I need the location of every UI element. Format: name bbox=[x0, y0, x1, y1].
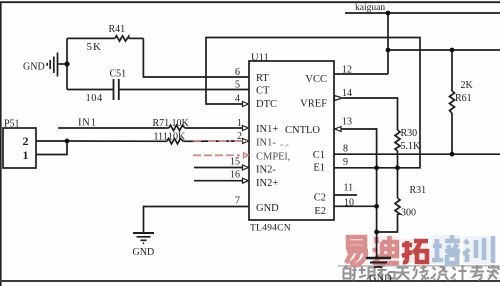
resistor 111 10K bbox=[167, 139, 183, 144]
kaiguan rail bbox=[345, 12, 500, 14]
faint middle watermark dashes bbox=[193, 141, 249, 158]
node kaiguan junction bbox=[386, 11, 391, 16]
svg-text:R30: R30 bbox=[401, 128, 418, 139]
svg-text:8: 8 bbox=[343, 144, 348, 155]
svg-text:15: 15 bbox=[230, 157, 240, 168]
svg-text:CT: CT bbox=[256, 86, 270, 97]
page border bottom bbox=[0, 280, 500, 282]
wire pin8 C1 bbox=[334, 153, 500, 155]
培 bbox=[432, 235, 460, 263]
resistor R61 bbox=[450, 91, 455, 113]
svg-text:IN2+: IN2+ bbox=[256, 178, 278, 189]
svg-text:E1: E1 bbox=[313, 163, 325, 174]
node rail2-R61 junction bbox=[450, 48, 455, 53]
svg-text:11: 11 bbox=[344, 183, 354, 194]
设 bbox=[431, 267, 449, 280]
ground bottom-left bbox=[133, 233, 154, 243]
wire IN1 bbox=[58, 127, 169, 129]
svg-text:C1: C1 bbox=[313, 150, 325, 161]
svg-text:16: 16 bbox=[230, 170, 240, 181]
node P51 junction bbox=[65, 139, 70, 144]
arrow pin16 IN2+ bbox=[243, 178, 249, 183]
svg-text:VREF: VREF bbox=[300, 99, 327, 110]
connector P51 box bbox=[3, 128, 36, 168]
射 bbox=[344, 266, 357, 280]
resistor R31 leads bbox=[397, 168, 399, 198]
watermark gray line bbox=[338, 265, 500, 267]
resistor R31 bbox=[395, 198, 400, 214]
node R31-gnd junction bbox=[374, 230, 379, 235]
arrow pin14 VREF out bbox=[335, 96, 343, 101]
svg-text:2K: 2K bbox=[461, 80, 474, 91]
rail 2 bbox=[388, 49, 500, 51]
IC U11 box bbox=[249, 61, 334, 220]
svg-text:111: 111 bbox=[154, 132, 168, 143]
stray gray marks bbox=[280, 145, 289, 146]
svg-text:IN1-: IN1- bbox=[256, 138, 276, 149]
wire IN2+ bbox=[194, 180, 243, 182]
svg-text:U11: U11 bbox=[251, 53, 269, 64]
svg-text:6: 6 bbox=[235, 67, 240, 78]
svg-text:R41: R41 bbox=[109, 24, 126, 35]
svg-text:IN1: IN1 bbox=[78, 118, 97, 129]
svg-text:E2: E2 bbox=[314, 206, 326, 217]
ground bottom-right bbox=[366, 258, 391, 267]
svg-text:R71: R71 bbox=[153, 118, 170, 129]
svg-text:RT: RT bbox=[256, 73, 269, 84]
node rail2-vcc junction bbox=[386, 48, 391, 53]
wire R41 left vertical bbox=[66, 38, 68, 89]
训 bbox=[463, 236, 493, 263]
ground left (earth, rotated) bbox=[47, 53, 57, 77]
arrow pin2 IN1- bbox=[243, 139, 249, 144]
node C1-R61 junction bbox=[450, 152, 455, 157]
wire kaiguan drop bbox=[387, 13, 389, 74]
svg-text:104: 104 bbox=[86, 93, 104, 104]
svg-text:CMPEl,: CMPEl, bbox=[256, 152, 290, 163]
wire P51 pin2 bbox=[36, 140, 67, 142]
svg-text:5: 5 bbox=[235, 80, 240, 91]
svg-text:IN2-: IN2- bbox=[256, 165, 276, 176]
wire pin14 VREF bbox=[343, 98, 398, 130]
专 bbox=[470, 265, 484, 280]
page border top bbox=[0, 1, 500, 3]
arrow pin1 IN1+ bbox=[243, 126, 249, 131]
svg-text:IN1+: IN1+ bbox=[256, 124, 278, 135]
svg-text:2: 2 bbox=[237, 131, 242, 142]
svg-text:5.1K: 5.1K bbox=[401, 141, 422, 152]
wire R41 to pin6 RT bbox=[143, 38, 249, 77]
svg-text:C2: C2 bbox=[314, 193, 326, 204]
wire gnd left stub bbox=[58, 63, 68, 65]
node gnd-left junction bbox=[64, 61, 69, 66]
svg-text:7: 7 bbox=[235, 196, 240, 207]
resistor R30 bbox=[395, 130, 400, 151]
wire right gnd drop bbox=[376, 168, 378, 258]
labels bbox=[250, 53, 327, 234]
svg-text:DTC: DTC bbox=[256, 99, 277, 110]
capacitor C51 plates bbox=[113, 79, 115, 100]
watermark gray text 射频和天线设计专家 (shapes) bbox=[344, 265, 499, 280]
arrow pin4 DTC bbox=[243, 102, 249, 107]
svg-text:1: 1 bbox=[23, 148, 29, 162]
wire pin10 E2 bbox=[334, 205, 377, 207]
resistor R71 bbox=[169, 125, 185, 130]
svg-text:2: 2 bbox=[23, 134, 29, 148]
svg-text:1: 1 bbox=[237, 118, 242, 129]
svg-text:kaiguan: kaiguan bbox=[355, 3, 385, 13]
wire pin9 E1 feedback to DTC bbox=[206, 38, 420, 168]
svg-text:GND: GND bbox=[23, 62, 45, 73]
svg-text:R31: R31 bbox=[410, 185, 427, 196]
resistor R61 leads bbox=[451, 50, 453, 91]
svg-text:P51: P51 bbox=[4, 119, 20, 130]
svg-text:4: 4 bbox=[235, 94, 240, 105]
node E2 junction bbox=[374, 204, 379, 209]
wire P51 pin1 bbox=[36, 141, 67, 155]
wire pin13 CNTLO bbox=[341, 129, 377, 168]
svg-text:10K: 10K bbox=[172, 118, 190, 129]
svg-text:12: 12 bbox=[342, 65, 352, 76]
resistor R41 leads bbox=[67, 37, 115, 39]
svg-text:GND: GND bbox=[369, 274, 392, 285]
迪 bbox=[373, 236, 399, 263]
svg-text:GND: GND bbox=[256, 203, 279, 214]
svg-text:C51: C51 bbox=[110, 69, 127, 80]
svg-text:13: 13 bbox=[342, 117, 352, 128]
wire pin7 GND bbox=[144, 207, 250, 234]
page border left bbox=[0, 2, 2, 286]
svg-text:9: 9 bbox=[343, 157, 348, 168]
和 bbox=[378, 266, 395, 280]
node E1-R30 junction bbox=[395, 165, 400, 170]
svg-text:5K: 5K bbox=[87, 41, 102, 53]
node E1-CNTLO junction bbox=[374, 165, 379, 170]
resistor R41 bbox=[115, 36, 129, 41]
wire pin12 VCC bbox=[334, 73, 388, 75]
svg-text:VCC: VCC bbox=[305, 74, 327, 85]
易 bbox=[346, 237, 368, 265]
计 bbox=[451, 265, 467, 280]
svg-text:CNTLO: CNTLO bbox=[285, 125, 320, 136]
频 bbox=[359, 267, 376, 280]
线 bbox=[413, 265, 430, 280]
arrow pin15 IN2- bbox=[243, 165, 249, 170]
pin arrows bbox=[243, 96, 343, 184]
拓 bbox=[402, 241, 428, 262]
天 bbox=[396, 268, 410, 280]
capacitor C51 leads bbox=[67, 89, 114, 91]
svg-text:R61: R61 bbox=[455, 93, 472, 104]
svg-text:300: 300 bbox=[401, 208, 416, 219]
svg-text:TL494CN: TL494CN bbox=[250, 223, 291, 234]
watermark red text 易迪拓培训 (drawn as shapes) bbox=[346, 235, 494, 265]
svg-text:14: 14 bbox=[342, 88, 352, 99]
wire IN1- row bbox=[67, 140, 167, 142]
wire IN2- bbox=[194, 167, 243, 169]
svg-text:10: 10 bbox=[344, 198, 354, 209]
wire pin11 C2 stub bbox=[334, 194, 357, 196]
arrow pin13 CNTLO in bbox=[335, 127, 341, 132]
svg-text:GND: GND bbox=[133, 247, 155, 258]
svg-text:10K: 10K bbox=[168, 132, 186, 143]
家 bbox=[488, 265, 499, 280]
